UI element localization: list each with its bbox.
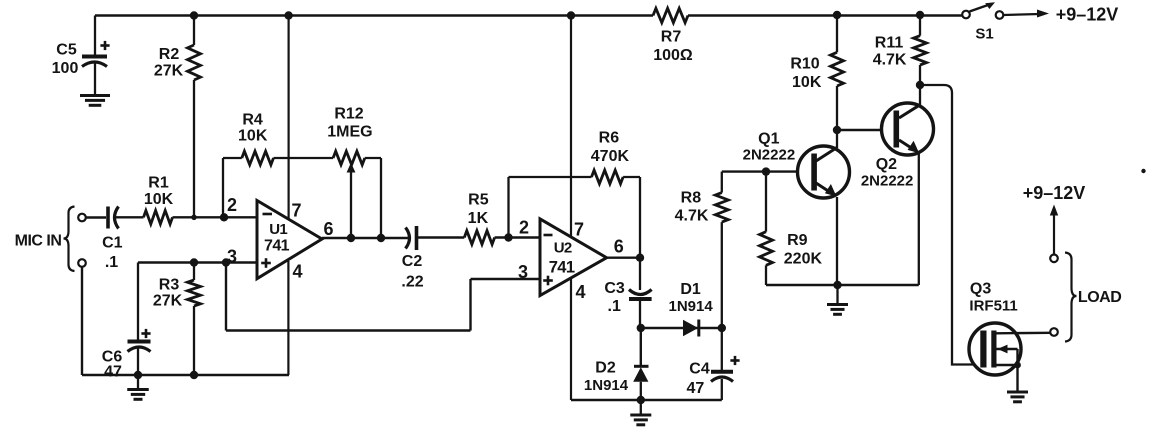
wire U1 output — [322, 237, 409, 239]
svg-text:1MEG: 1MEG — [327, 123, 372, 140]
node emitter ground junction — [833, 281, 841, 289]
terminal mic in bottom — [78, 259, 86, 267]
svg-text:10K: 10K — [792, 74, 822, 91]
resistor R1 — [144, 174, 174, 224]
pin 2 label U1 — [227, 195, 237, 215]
svg-text:2: 2 — [227, 195, 237, 215]
pin 2 label U2 — [519, 218, 529, 238]
resistor R4 — [223, 112, 333, 218]
svg-text:.22: .22 — [401, 274, 423, 291]
switch S1 — [962, 2, 1003, 42]
node R1 R2 junction — [191, 215, 197, 221]
wire C1 to R1 — [115, 216, 144, 218]
capacitor C2 — [401, 226, 423, 291]
diode D1 — [641, 281, 722, 337]
label +9-12V supply — [1056, 5, 1119, 25]
resistor R6 — [509, 130, 641, 258]
capacitor C3 — [604, 258, 651, 328]
node D1 anode junction — [637, 324, 645, 332]
svg-text:MIC IN: MIC IN — [15, 232, 62, 249]
svg-text:D1: D1 — [680, 281, 701, 298]
svg-text:.1: .1 — [608, 298, 621, 315]
svg-text:4: 4 — [292, 262, 302, 282]
wire mic top lead — [86, 216, 106, 218]
svg-text:10K: 10K — [238, 127, 268, 144]
pin 7 U2 — [571, 16, 584, 240]
resistor R9 — [760, 172, 823, 285]
wire C2 to R5 — [418, 236, 464, 238]
resistor R10 — [790, 15, 843, 130]
svg-text:100Ω: 100Ω — [653, 47, 693, 64]
node R11 rail junction — [916, 11, 924, 19]
svg-text:C1: C1 — [102, 234, 123, 251]
svg-text:R6: R6 — [599, 130, 620, 147]
svg-text:4: 4 — [575, 282, 585, 302]
wire mic bottom to ground rail — [81, 267, 83, 375]
svg-text:3: 3 — [227, 247, 237, 267]
svg-text:2N2222: 2N2222 — [861, 173, 914, 190]
node bias divider junction — [190, 258, 198, 266]
label +9-12V load — [1023, 183, 1086, 203]
pin 3 label U1 — [227, 247, 237, 267]
node Q1 collector junction — [833, 126, 841, 134]
svg-text:100: 100 — [52, 60, 79, 77]
node R9 base junction — [762, 167, 770, 175]
svg-text:R10: R10 — [790, 55, 819, 72]
ground lower-left rail — [127, 375, 149, 399]
svg-text:R5: R5 — [468, 191, 489, 208]
resistor R5 — [464, 191, 494, 244]
op-amp U2 — [540, 219, 607, 296]
svg-text:7: 7 — [291, 201, 301, 221]
capacitor C1 — [102, 207, 123, 271]
label MIC IN — [15, 232, 62, 249]
svg-text:R4: R4 — [242, 112, 263, 129]
svg-text:R2: R2 — [159, 46, 180, 63]
node R3 ground junction — [190, 371, 198, 379]
wire detector ground line — [571, 399, 722, 401]
pin 6 label U2 — [614, 237, 624, 257]
svg-text:C5: C5 — [56, 41, 77, 58]
svg-text:4.7K: 4.7K — [873, 52, 907, 69]
wire R1 to U1 pin2 — [173, 216, 258, 218]
node U2 output junction — [636, 254, 644, 262]
node U2 pin7 rail junction — [567, 11, 575, 19]
wire bias branch to U2 pin3 — [226, 263, 540, 331]
svg-text:220K: 220K — [784, 251, 823, 268]
wire bias node to U1 pin3 — [138, 261, 257, 263]
node bias branch junction — [222, 258, 230, 266]
svg-text:C4: C4 — [689, 360, 710, 377]
resistor R7 — [653, 8, 693, 64]
node R10 rail junction — [833, 11, 841, 19]
svg-text:S1: S1 — [975, 25, 993, 42]
wire emitter ground line — [766, 284, 919, 286]
svg-text:2: 2 — [519, 218, 529, 238]
pin 4 U1 — [288, 261, 302, 375]
svg-text:27K: 27K — [154, 62, 184, 79]
wire Q2 collector to Q3 gate — [920, 85, 981, 365]
svg-text:6: 6 — [323, 219, 333, 239]
ground Q3 source — [1007, 392, 1028, 402]
svg-text:+9–12V: +9–12V — [1023, 183, 1086, 203]
wire Q1 base line — [722, 170, 812, 172]
capacitor C6 — [102, 263, 151, 381]
pin 7 U1 — [289, 16, 302, 221]
wire +9-12V supply arrow — [1004, 10, 1050, 18]
node R12 end junction — [377, 234, 385, 242]
node R2 top rail junction — [190, 11, 198, 19]
wire lower ground rail — [82, 374, 289, 377]
svg-text:D2: D2 — [595, 360, 616, 377]
brace load — [1065, 253, 1077, 342]
transistor Q2 — [861, 85, 934, 285]
resistor R2 — [154, 16, 201, 218]
svg-text:Q1: Q1 — [758, 130, 779, 147]
ground Q1 Q2 emitters — [827, 285, 848, 314]
capacitor C4 — [687, 328, 740, 400]
wire R5 to U2 pin2 — [495, 236, 540, 238]
pin 4 U2 — [571, 279, 586, 400]
svg-text:.1: .1 — [105, 254, 118, 271]
op-amp U1 — [257, 201, 322, 279]
svg-text:1N914: 1N914 — [584, 377, 629, 394]
svg-text:10K: 10K — [144, 191, 174, 208]
capacitor C5 — [52, 16, 110, 95]
label LOAD — [1078, 289, 1121, 306]
pin 6 label U1 — [323, 219, 333, 239]
terminal load top — [1050, 254, 1058, 262]
resistor R8 — [675, 172, 729, 328]
svg-text:741: 741 — [264, 238, 290, 255]
svg-text:R8: R8 — [681, 189, 702, 206]
svg-text:7: 7 — [574, 220, 584, 240]
svg-text:47: 47 — [104, 363, 122, 380]
node U2 pin2 junction — [504, 233, 512, 241]
svg-text:470K: 470K — [591, 148, 630, 165]
resistor R11 — [873, 15, 927, 85]
node R4 branch junction — [220, 213, 228, 221]
svg-text:R3: R3 — [159, 276, 180, 293]
wire Q1 collector to Q2 base — [837, 129, 896, 131]
transistor Q3 — [969, 281, 1050, 391]
svg-text:1K: 1K — [468, 210, 489, 227]
svg-text:R12: R12 — [334, 106, 363, 123]
svg-text:U2: U2 — [554, 240, 572, 257]
terminal load bottom — [1050, 328, 1058, 336]
resistor R3 — [153, 263, 201, 376]
wire top +V supply rail — [95, 14, 962, 17]
svg-text:27K: 27K — [153, 292, 183, 309]
svg-text:741: 741 — [549, 259, 575, 277]
transistor Q1 — [743, 130, 850, 285]
node U1 pin7 rail junction — [284, 11, 292, 19]
diode D2 — [584, 328, 649, 400]
svg-text:C3: C3 — [604, 280, 625, 297]
pin 3 label U2 — [518, 262, 528, 282]
node Q2 collector junction — [916, 81, 924, 89]
svg-text:2N2222: 2N2222 — [743, 147, 796, 164]
brace mic input — [64, 207, 75, 272]
ground detector — [630, 400, 651, 425]
svg-text:U1: U1 — [269, 221, 287, 238]
svg-text:LOAD: LOAD — [1078, 289, 1121, 306]
svg-text:6: 6 — [614, 237, 624, 257]
svg-text:R11: R11 — [875, 35, 904, 52]
terminal mic in top — [78, 214, 86, 222]
node D1 cathode junction — [718, 324, 726, 332]
svg-text:R1: R1 — [148, 174, 169, 191]
speck — [1141, 169, 1145, 173]
svg-text:47: 47 — [687, 380, 705, 397]
potentiometer R12 — [327, 106, 381, 238]
svg-text:Q3: Q3 — [970, 281, 991, 298]
node D2 ground junction — [637, 396, 645, 404]
node C6 ground junction — [134, 371, 142, 379]
svg-text:+9–12V: +9–12V — [1056, 5, 1119, 25]
svg-text:R9: R9 — [787, 232, 808, 249]
svg-text:C2: C2 — [402, 253, 423, 270]
svg-text:IRF511: IRF511 — [969, 297, 1017, 314]
wire load supply arrow — [1050, 205, 1058, 255]
svg-text:R7: R7 — [661, 28, 682, 45]
svg-text:4.7K: 4.7K — [675, 208, 709, 225]
ground C5 — [80, 96, 110, 106]
svg-text:1N914: 1N914 — [668, 298, 713, 315]
node R12 wiper junction — [347, 234, 355, 242]
wire U2 output — [607, 257, 640, 259]
svg-text:Q2: Q2 — [876, 156, 897, 173]
